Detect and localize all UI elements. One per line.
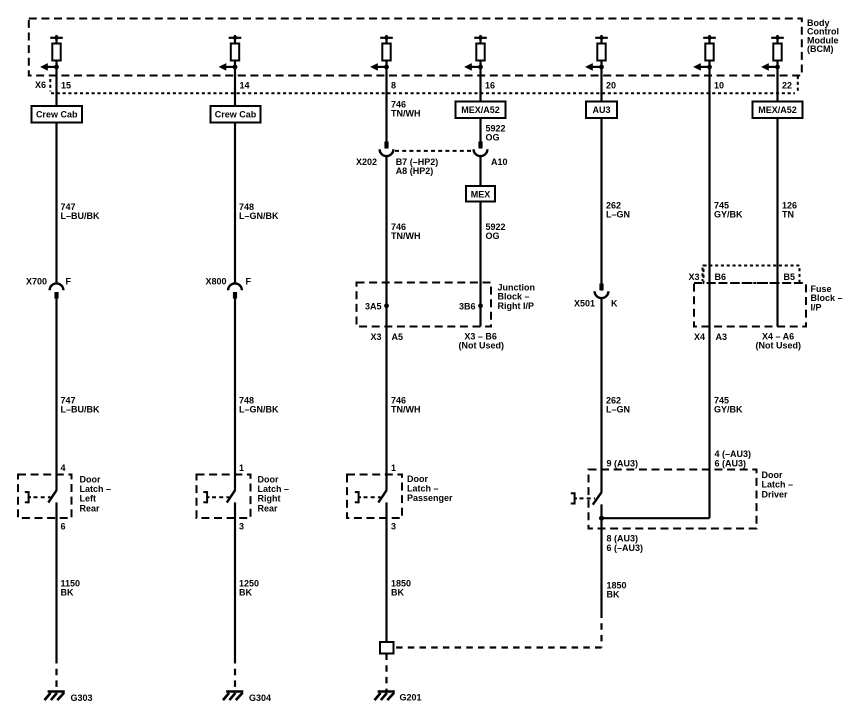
- wire col3 top: [385, 61, 387, 149]
- label 745 GY/BK lower: [714, 396, 743, 415]
- MEX/A52 box col4: [456, 102, 506, 119]
- switch col1: [25, 490, 57, 657]
- connector band right separator: [797, 76, 799, 93]
- dashed wire col3 to ground: [385, 654, 387, 691]
- svg-text:MEX: MEX: [471, 189, 491, 199]
- label 262 L-GN upper: [606, 201, 630, 220]
- label 1850 BK col5: [607, 580, 627, 599]
- svg-text:Rear: Rear: [80, 503, 101, 513]
- wire col1 top: [55, 61, 57, 107]
- svg-text:BK: BK: [61, 588, 74, 598]
- driver U3 (pin 8): [370, 35, 393, 71]
- dashed wire col5 to splice: [394, 612, 602, 648]
- svg-text:3A5: 3A5: [365, 301, 382, 311]
- svg-text:X501: X501: [574, 299, 595, 309]
- svg-text:6: 6: [61, 521, 66, 531]
- connector X501: [574, 284, 618, 309]
- wire col7 box to fuse block: [776, 118, 778, 327]
- svg-text:3B6: 3B6: [459, 301, 476, 311]
- svg-text:X800: X800: [206, 277, 227, 287]
- svg-text:15: 15: [61, 81, 71, 91]
- svg-text:A3: A3: [716, 332, 728, 342]
- svg-text:10: 10: [714, 81, 724, 91]
- switch col2: [203, 490, 235, 657]
- svg-text:BK: BK: [607, 590, 620, 600]
- svg-text:GY/BK: GY/BK: [714, 405, 743, 415]
- door latch passenger box: [347, 475, 402, 519]
- svg-text:L–GN/BK: L–GN/BK: [239, 405, 279, 415]
- X202 dashed link: [395, 150, 472, 152]
- svg-text:BK: BK: [391, 588, 404, 598]
- label 1150 BK: [61, 578, 81, 597]
- connector X700: [26, 277, 72, 299]
- driver U4 (pin 16): [464, 35, 487, 71]
- svg-text:F: F: [246, 277, 252, 287]
- svg-text:GY/BK: GY/BK: [714, 210, 743, 220]
- wire col1 X700 to latch: [55, 299, 57, 491]
- svg-text:F: F: [66, 277, 72, 287]
- wire col4 top: [479, 61, 481, 102]
- wire col5 X501 to latch: [600, 298, 602, 493]
- svg-text:22: 22: [782, 81, 792, 91]
- label 746 TN/WH top: [391, 99, 421, 118]
- svg-text:L–GN: L–GN: [606, 210, 630, 220]
- X202 pin labels B7/A8: [396, 157, 439, 176]
- svg-text:3: 3: [239, 521, 244, 531]
- svg-text:8: 8: [391, 81, 396, 91]
- svg-text:Right I/P: Right I/P: [498, 301, 535, 311]
- svg-text:B5: B5: [784, 272, 796, 282]
- Body Control Module dashed box: [29, 19, 802, 76]
- svg-text:OG: OG: [486, 133, 500, 143]
- svg-text:X202: X202: [356, 157, 377, 167]
- dashed wire col1 to ground: [55, 657, 57, 691]
- svg-text:16: 16: [485, 81, 495, 91]
- node 3A5: [365, 301, 389, 311]
- svg-text:Latch –: Latch –: [80, 484, 112, 494]
- wire col4 MEX to junction: [479, 202, 481, 327]
- svg-text:4 (–AU3): 4 (–AU3): [715, 449, 752, 459]
- junction block dashed box: [357, 283, 492, 327]
- door latch driver box: [589, 470, 757, 529]
- BCM label: [807, 18, 839, 54]
- pin 4 (-AU3) labels col6: [715, 449, 752, 469]
- svg-text:Driver: Driver: [762, 489, 789, 499]
- door latch right rear box: [197, 475, 251, 519]
- MEX box: [466, 186, 495, 202]
- svg-text:X3: X3: [371, 332, 382, 342]
- fuse block X3 label: [689, 268, 703, 283]
- svg-text:Left: Left: [80, 494, 97, 504]
- svg-text:X4: X4: [694, 332, 705, 342]
- svg-text:20: 20: [606, 81, 616, 91]
- svg-text:A5: A5: [392, 332, 404, 342]
- svg-text:BK: BK: [239, 588, 252, 598]
- wire col2 top: [234, 61, 236, 107]
- svg-text:K: K: [611, 299, 618, 309]
- pin 8 (AU3) labels: [607, 534, 644, 554]
- wire col7 top: [776, 61, 778, 102]
- svg-text:G304: G304: [249, 693, 271, 703]
- dashed wire col2 to ground: [234, 657, 236, 691]
- junction block not used label: [459, 331, 505, 350]
- svg-text:MEX/A52: MEX/A52: [758, 105, 797, 115]
- Crew Cab box col2: [211, 106, 261, 123]
- fuse block pin labels X4 A3: [694, 332, 727, 342]
- connector X202 col3 half: [356, 142, 393, 168]
- label 1250 BK: [239, 578, 259, 597]
- svg-text:X6: X6: [35, 80, 46, 90]
- svg-text:L–GN/BK: L–GN/BK: [239, 211, 279, 221]
- svg-text:Latch –: Latch –: [762, 480, 794, 490]
- junction block pin labels X3 A5: [371, 332, 404, 342]
- svg-text:(Not Used): (Not Used): [459, 341, 505, 351]
- driver U7 (pin 22): [761, 35, 784, 71]
- label 748 L-GN/BK upper: [239, 202, 279, 221]
- label 126 TN: [782, 201, 797, 220]
- label 1850 BK col3: [391, 578, 411, 597]
- ground G304: [223, 692, 243, 701]
- driver U1 (pin 15): [40, 35, 63, 71]
- driver U2 (pin 14): [219, 35, 242, 71]
- connector X800: [206, 277, 252, 299]
- svg-text:14: 14: [240, 81, 250, 91]
- wire col2 X800 to latch: [234, 299, 236, 491]
- connector X202 col4 half: [474, 142, 508, 168]
- svg-text:A10: A10: [491, 157, 508, 167]
- wire col3 X202 to latch: [385, 156, 387, 491]
- svg-text:6 (AU3): 6 (AU3): [715, 459, 747, 469]
- MEX/A52 box col7: [753, 102, 803, 119]
- connector X6 separator: [49, 79, 51, 92]
- label 748 L-GN/BK lower: [239, 396, 279, 415]
- svg-text:Door: Door: [407, 474, 428, 484]
- svg-text:X3: X3: [689, 272, 700, 282]
- wire col2 to X800: [234, 123, 236, 284]
- svg-text:(BCM): (BCM): [807, 44, 834, 54]
- svg-text:AU3: AU3: [592, 105, 610, 115]
- fuse block dashed box: [694, 283, 806, 327]
- label 746 TN/WH lower: [391, 396, 421, 415]
- svg-text:(Not Used): (Not Used): [756, 341, 802, 351]
- ground G201: [375, 692, 395, 701]
- fuse block not used label: [756, 332, 802, 351]
- svg-text:9 (AU3): 9 (AU3): [607, 459, 639, 469]
- switch col3: [355, 490, 387, 642]
- svg-text:6 (–AU3): 6 (–AU3): [607, 543, 644, 553]
- label 747 L-BU/BK upper: [61, 202, 101, 221]
- AU3 box: [586, 102, 617, 119]
- wire col6 inside latch box: [708, 470, 710, 519]
- label 5922 OG upper: [486, 123, 506, 142]
- wire col5 AU3 to X501: [600, 118, 602, 291]
- wire col1 to X700: [55, 123, 57, 284]
- driver U5 (pin 20): [585, 35, 608, 71]
- svg-text:TN/WH: TN/WH: [391, 109, 421, 119]
- svg-text:A8 (HP2): A8 (HP2): [396, 166, 434, 176]
- svg-text:Passenger: Passenger: [407, 493, 453, 503]
- wire col5 top: [600, 61, 602, 102]
- svg-text:4: 4: [61, 463, 66, 473]
- svg-text:TN: TN: [782, 210, 794, 220]
- svg-text:MEX/A52: MEX/A52: [461, 105, 500, 115]
- svg-text:Door: Door: [258, 474, 279, 484]
- svg-text:Door: Door: [80, 474, 101, 484]
- svg-text:TN/WH: TN/WH: [391, 405, 421, 415]
- wire latch internal col5 to col6: [602, 517, 710, 519]
- label 747 L-BU/BK lower: [61, 396, 101, 415]
- label 5922 OG lower: [486, 222, 506, 241]
- fuse block label: [811, 284, 843, 312]
- svg-text:G201: G201: [400, 693, 422, 703]
- driver U6 (pin 10): [693, 35, 716, 71]
- svg-text:L–BU/BK: L–BU/BK: [61, 405, 101, 415]
- svg-text:8 (AU3): 8 (AU3): [607, 534, 639, 544]
- door latch left rear box: [18, 475, 72, 519]
- label 262 L-GN lower: [606, 396, 630, 415]
- svg-text:1: 1: [239, 463, 244, 473]
- svg-text:I/P: I/P: [811, 302, 822, 312]
- svg-text:Latch –: Latch –: [258, 484, 290, 494]
- svg-text:Rear: Rear: [258, 503, 279, 513]
- svg-text:TN/WH: TN/WH: [391, 231, 421, 241]
- junction dot col5: [599, 516, 604, 521]
- wire col4 X202 to MEX: [479, 156, 481, 186]
- svg-text:B6: B6: [715, 272, 727, 282]
- Crew Cab box col1: [32, 106, 83, 123]
- label 746 TN/WH mid: [391, 222, 421, 241]
- wire col4 box to X202: [479, 118, 481, 149]
- svg-text:Right: Right: [258, 494, 281, 504]
- svg-text:1: 1: [391, 463, 396, 473]
- svg-text:Crew Cab: Crew Cab: [215, 110, 257, 120]
- svg-text:X700: X700: [26, 277, 47, 287]
- connector X6 dotted line: [51, 92, 795, 94]
- svg-text:L–GN: L–GN: [606, 405, 630, 415]
- junction block label: [498, 283, 536, 311]
- splice square S201: [380, 642, 394, 654]
- svg-text:3: 3: [391, 521, 396, 531]
- label 745 GY/BK upper: [714, 201, 743, 220]
- svg-text:Latch –: Latch –: [407, 484, 439, 494]
- fuse block dotted box: [704, 266, 800, 284]
- svg-text:Door: Door: [762, 470, 783, 480]
- wire col6 top: [708, 61, 710, 470]
- svg-text:L–BU/BK: L–BU/BK: [61, 211, 101, 221]
- switch col5: [571, 492, 602, 611]
- svg-text:Crew Cab: Crew Cab: [36, 110, 78, 120]
- svg-text:G303: G303: [71, 693, 93, 703]
- svg-text:OG: OG: [486, 231, 500, 241]
- node 3B6: [459, 301, 483, 311]
- ground G303: [45, 692, 65, 701]
